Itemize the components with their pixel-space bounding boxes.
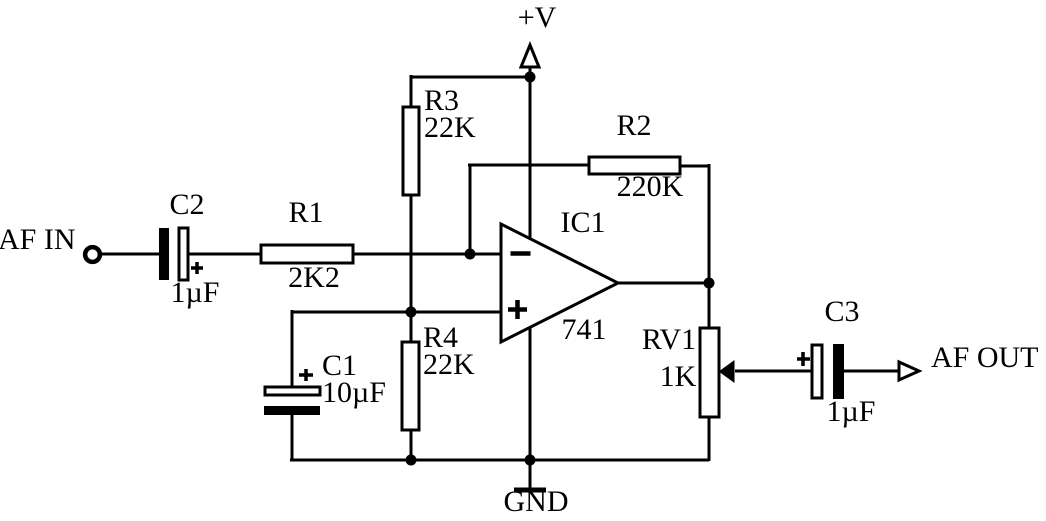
svg-text:+V: +V	[518, 1, 557, 34]
svg-text:1µF: 1µF	[827, 395, 876, 428]
wire C1 top branch	[291, 310, 294, 386]
potentiometer RV1 wiper arrow	[720, 361, 735, 382]
svg-text:2K2: 2K2	[288, 261, 340, 294]
capacitor C3 negative plate (filled)	[833, 344, 844, 399]
wire R4 bottom lead	[410, 430, 413, 460]
resistor R3	[403, 107, 419, 195]
svg-text:1µF: 1µF	[171, 276, 220, 309]
junction node at op-amp output	[704, 278, 715, 289]
wire GND stem	[529, 460, 532, 488]
svg-text:AF IN: AF IN	[0, 223, 76, 256]
junction node at R4 bottom rail	[406, 455, 417, 466]
wire +V symbol stem	[529, 65, 532, 77]
junction node at inverting input	[465, 249, 476, 260]
wire C1 bottom branch	[291, 415, 294, 460]
svg-text:22K: 22K	[424, 111, 476, 144]
junction node at non-inverting divider	[406, 307, 417, 318]
junction node at +V	[525, 72, 536, 83]
op-amp inverting pin minus sign	[511, 251, 531, 256]
op-amp U1 (IC1 741) triangle	[501, 224, 618, 342]
wire bottom ground rail	[290, 459, 709, 462]
resistor R2	[589, 157, 680, 174]
wire wiper to C3	[735, 370, 812, 373]
wire feedback vertical from inverting node up	[469, 165, 472, 254]
wire input terminal to C2	[101, 253, 160, 256]
capacitor C2 negative plate (filled)	[159, 228, 169, 280]
svg-text:GND: GND	[504, 485, 569, 518]
wire C2 to R1	[188, 253, 261, 256]
input terminal circle	[85, 247, 100, 262]
capacitor C2 plus sign	[191, 262, 203, 274]
potentiometer RV1 body	[700, 328, 719, 417]
svg-text:C2: C2	[169, 188, 204, 221]
svg-text:741: 741	[562, 313, 607, 346]
wire R3 top lead	[410, 75, 413, 107]
svg-text:AF OUT: AF OUT	[931, 341, 1039, 374]
wire R1 to op-amp inverting input	[353, 253, 501, 256]
capacitor C1 negative plate (filled)	[264, 406, 320, 415]
resistor R4	[402, 342, 419, 430]
ground symbol bar	[514, 488, 546, 493]
svg-text:10µF: 10µF	[322, 376, 386, 409]
wire +V rail to R3 top corner	[411, 76, 530, 79]
svg-text:RV1: RV1	[642, 323, 696, 356]
junction node at ground rail	[525, 455, 536, 466]
svg-text:1K: 1K	[660, 360, 697, 393]
wire op-amp output to node	[618, 282, 709, 285]
capacitor C3 positive plate (hollow)	[812, 345, 822, 398]
wire corner down to output node	[708, 164, 711, 283]
wire C3 to AF OUT	[843, 370, 899, 373]
capacitor C2 positive plate (hollow)	[179, 228, 188, 280]
AF OUT arrow	[899, 362, 919, 380]
wire +V supply vertical down to ground rail	[529, 77, 532, 460]
capacitor C3 plus sign	[797, 352, 810, 366]
wire non-inverting input	[292, 311, 501, 314]
wire feedback node to R2 left	[468, 164, 589, 167]
wire R4 top lead	[410, 312, 413, 342]
svg-text:R2: R2	[616, 109, 651, 142]
wire R2 right to corner	[680, 165, 709, 168]
wire R3 bottom lead down to divider node	[410, 195, 413, 312]
svg-text:IC1: IC1	[561, 206, 606, 239]
wire RV1 bottom lead	[708, 417, 711, 461]
capacitor C1 positive plate (hollow)	[265, 387, 320, 395]
svg-text:22K: 22K	[423, 348, 475, 381]
op-amp non-inverting pin plus sign	[508, 300, 527, 319]
capacitor C1 plus sign	[299, 369, 313, 381]
+V supply symbol triangle	[521, 45, 539, 67]
resistor R1	[261, 245, 353, 263]
svg-text:C3: C3	[824, 295, 859, 328]
svg-text:R1: R1	[288, 196, 323, 229]
svg-text:220K: 220K	[617, 170, 684, 203]
wire RV1 top lead	[708, 283, 711, 328]
